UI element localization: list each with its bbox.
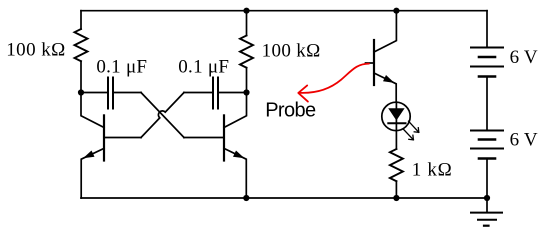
wire C2 right plate to node B — [218, 92, 247, 94]
transistor Q3 base stub — [366, 62, 375, 64]
battery B1 plates — [471, 48, 503, 67]
wire node A to C1 left plate — [81, 92, 108, 94]
probe red arrow — [298, 64, 369, 102]
wire R2 bottom to node B — [246, 68, 248, 93]
svg-text:6 V: 6 V — [510, 130, 538, 151]
transistor Q2 emitter arrowhead — [233, 151, 245, 159]
capacitor C2 0.1uF — [213, 78, 218, 109]
ground symbol — [486, 198, 488, 213]
wire R1 bottom to node A — [80, 61, 82, 92]
wire left vertical to R1 — [80, 11, 82, 29]
svg-text:100 kΩ: 100 kΩ — [262, 40, 321, 61]
svg-text:6 V: 6 V — [510, 47, 538, 68]
battery B2 bottom wire — [486, 159, 488, 199]
battery B1 top wire — [486, 11, 488, 48]
transistor Q2 collector — [224, 93, 247, 128]
wire bottom rail — [81, 197, 487, 199]
svg-text:1 kΩ: 1 kΩ — [412, 160, 452, 181]
transistor Q3 bar — [373, 40, 375, 85]
wire R3 to bottom rail — [395, 181, 397, 198]
transistor Q1 bar — [103, 115, 105, 160]
wire between batteries — [486, 77, 488, 131]
junction node B (right cap node) — [243, 89, 249, 95]
battery B2 plates — [471, 131, 503, 149]
LED D1 wire through — [395, 102, 397, 149]
wire Q2 base lead — [184, 137, 224, 139]
wire C2 left plate — [184, 92, 213, 94]
transistor Q1 emitter arrowhead — [83, 151, 95, 159]
capacitor C1 0.1uF — [108, 78, 113, 109]
junction node bottom R3 — [393, 195, 399, 201]
resistor R1 100 kOhm — [75, 29, 88, 61]
wire top rail — [81, 10, 487, 12]
LED D1 triangle — [388, 108, 404, 120]
transistor Q2 bar — [223, 115, 225, 160]
svg-text:0.1 μF: 0.1 μF — [96, 57, 147, 78]
transistor Q1 collector — [81, 93, 104, 128]
resistor R2 100 kOhm — [240, 36, 253, 68]
LED D1 circle — [382, 102, 410, 130]
transistor Q3 collector wire — [374, 11, 396, 52]
wire diagonal C1 to Q2 base — [141, 93, 184, 138]
wire Q1 base lead — [104, 137, 141, 139]
LED emission arrow 1 — [409, 121, 419, 132]
transistor Q3 emitter — [374, 73, 396, 102]
svg-text:100 kΩ: 100 kΩ — [6, 40, 65, 61]
wire diagonal C2 to Q1 base with hop — [141, 93, 184, 138]
wire C1 right plate — [113, 92, 141, 94]
svg-text:Probe: Probe — [265, 100, 316, 122]
resistor R2 100 kOhm top wire — [246, 11, 248, 36]
junction node bottom Q2 — [243, 195, 249, 201]
svg-text:0.1 μF: 0.1 μF — [178, 57, 229, 78]
transistor Q3 emitter arrowhead — [383, 75, 394, 83]
junction node top Q3 — [393, 8, 399, 14]
resistor R3 1 kOhm — [390, 149, 403, 181]
LED D1 cathode bar — [388, 122, 405, 124]
transistor Q2 emitter — [224, 148, 246, 198]
junction node A (left cap node) — [78, 89, 84, 95]
junction node top R2 — [243, 8, 249, 14]
transistor Q1 emitter — [81, 148, 104, 198]
LED emission arrow 2 — [403, 129, 413, 140]
junction node bottom battery — [484, 195, 490, 201]
